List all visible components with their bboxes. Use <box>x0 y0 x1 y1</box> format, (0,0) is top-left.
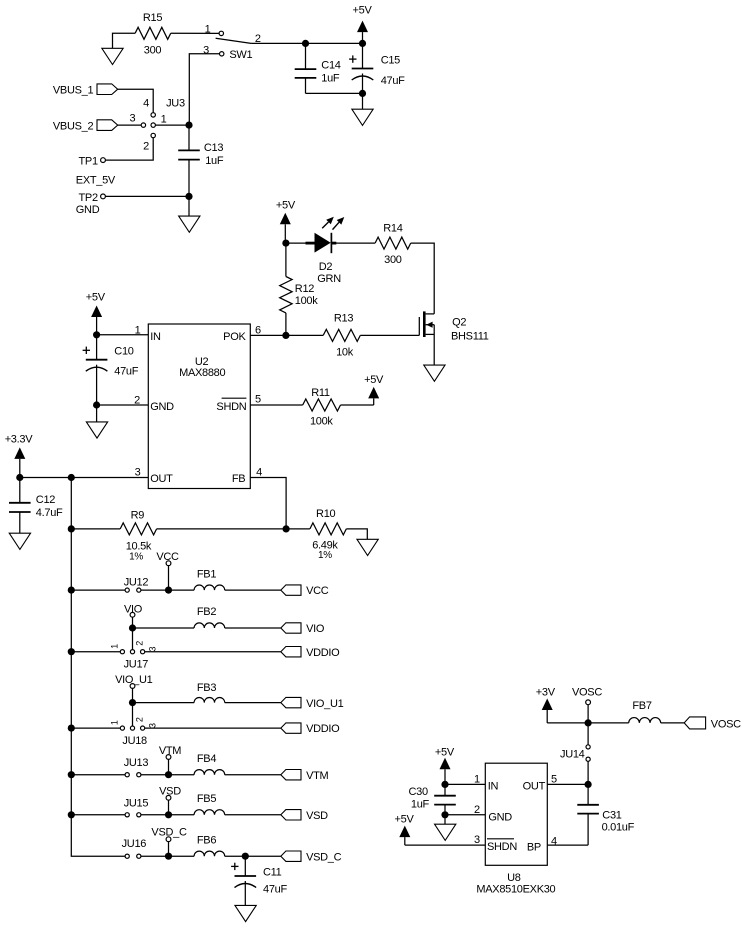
wire rail to JU17 <box>71 651 120 653</box>
svg-text:VBUS_2: VBUS_2 <box>53 121 94 133</box>
wire TP1 to JU3 pin2 <box>105 138 153 160</box>
wire rail to JU12 <box>71 589 125 591</box>
svg-text:VSD_C: VSD_C <box>306 851 342 863</box>
svg-text:0.01uF: 0.01uF <box>602 822 635 834</box>
IC U8 MAX8510EXK30 <box>485 763 547 865</box>
wire rail to JU13 <box>71 774 125 776</box>
wire R11 to +5V <box>341 404 374 406</box>
wire U2 pin2 GND <box>97 404 149 406</box>
ground (below C10) <box>96 405 98 422</box>
ferrite bead FB5 <box>194 810 225 815</box>
svg-text:FB: FB <box>232 473 245 485</box>
wire TP2 to ground node <box>105 195 189 197</box>
svg-text:1%: 1% <box>318 550 332 561</box>
IC U2 MAX8880 <box>148 324 250 489</box>
wire VOSC node to FB7 <box>588 722 629 724</box>
capacitor C15 47uF (polarized) <box>362 43 364 68</box>
wire FB1 to VCC port <box>225 589 281 591</box>
wire U2 pin4 FB <box>250 478 286 529</box>
svg-text:FB6: FB6 <box>197 834 216 846</box>
svg-text:3: 3 <box>148 647 158 652</box>
svg-text:IN: IN <box>150 331 161 343</box>
svg-text:2: 2 <box>143 141 149 153</box>
svg-text:JU12: JU12 <box>124 576 149 588</box>
wire to LED anode <box>286 242 316 244</box>
svg-text:TP2: TP2 <box>79 192 98 204</box>
junction FB node <box>283 525 290 532</box>
wire JU13 to FB4 <box>141 774 194 776</box>
capacitor C30 1uF <box>444 784 446 795</box>
svg-text:VOSC: VOSC <box>572 686 602 698</box>
svg-text:VBUS_1: VBUS_1 <box>53 85 94 97</box>
svg-text:1uF: 1uF <box>321 73 340 85</box>
svg-text:R14: R14 <box>383 223 402 235</box>
resistor R14 <box>375 237 411 249</box>
wire main rail <box>71 478 125 857</box>
junction VOSC node <box>585 719 592 726</box>
svg-text:GND: GND <box>150 401 174 413</box>
svg-text:C14: C14 <box>321 60 340 72</box>
svg-text:VDDIO: VDDIO <box>306 723 340 735</box>
svg-text:C10: C10 <box>114 346 133 358</box>
ground (below Q2) <box>424 365 445 381</box>
svg-text:C11: C11 <box>263 866 282 878</box>
ground (left of R15) <box>113 33 136 48</box>
ground (right of R10) <box>357 539 378 555</box>
svg-text:SHDN: SHDN <box>487 841 517 853</box>
junction rail top <box>68 474 75 481</box>
svg-text:2: 2 <box>135 641 145 646</box>
wire FB6 to VSD_C port <box>225 855 281 857</box>
junction rail-JU15 <box>68 811 75 818</box>
svg-text:4: 4 <box>256 466 262 478</box>
svg-text:C12: C12 <box>36 494 55 506</box>
ferrite bead FB6 <box>194 851 225 856</box>
wire R14 to Q2 drain <box>411 243 435 314</box>
svg-text:FB3: FB3 <box>197 682 216 694</box>
junction OUT node <box>585 781 592 788</box>
svg-text:R11: R11 <box>311 387 330 399</box>
jumper JU16 <box>125 854 129 858</box>
LED D2 <box>306 242 315 245</box>
wire C31 to U8 pin4 BP <box>547 844 588 846</box>
svg-text:R10: R10 <box>316 508 335 520</box>
wire U8 pin1 IN <box>445 783 485 785</box>
port VTM <box>281 770 301 780</box>
junction VCC tp <box>165 587 172 594</box>
svg-text:MAX8510EXK30: MAX8510EXK30 <box>476 884 555 896</box>
wire FB3 to VIO_U1 port <box>225 702 281 704</box>
junction rail-JU13 <box>68 771 75 778</box>
wire JU17 pin2 up to VIO node <box>132 628 134 650</box>
junction C10 top <box>93 331 100 338</box>
svg-text:1uF: 1uF <box>205 155 224 167</box>
svg-text:U8: U8 <box>507 872 521 884</box>
svg-text:GND: GND <box>488 811 512 823</box>
svg-text:3: 3 <box>203 45 209 57</box>
wire VBUS_1 to JU3 pin4 <box>118 89 154 113</box>
svg-text:D2: D2 <box>319 261 333 273</box>
wire VIO to FB2 <box>133 627 195 629</box>
svg-text:EXT_5V: EXT_5V <box>76 175 116 187</box>
transistor Q2 <box>418 317 420 335</box>
svg-text:JU18: JU18 <box>122 735 147 747</box>
svg-text:1: 1 <box>205 24 211 36</box>
svg-text:JU3: JU3 <box>166 98 185 110</box>
capacitor C14 1uF <box>305 43 307 69</box>
switch SW1 <box>219 31 223 35</box>
jumper JU3 <box>151 113 155 117</box>
svg-text:BHS111: BHS111 <box>451 331 489 343</box>
junction C11 node <box>242 853 249 860</box>
jumper JU13 <box>125 773 129 777</box>
svg-text:VDDIO: VDDIO <box>306 647 340 659</box>
ground (below C15) <box>362 93 364 109</box>
ferrite bead FB1 <box>194 585 225 590</box>
svg-text:VSD: VSD <box>306 810 328 822</box>
capacitor C11 47uF (polarized) <box>244 856 246 876</box>
capacitor C31 0.01uF <box>587 784 589 804</box>
svg-text:47uF: 47uF <box>381 75 405 87</box>
junction JU3 node <box>185 122 192 129</box>
junction C10 bottom <box>93 401 100 408</box>
wire JU16 to FB6 <box>141 855 194 857</box>
svg-text:5: 5 <box>551 773 557 785</box>
jumper JU14 <box>587 723 589 745</box>
wire R10 to ground <box>346 529 367 539</box>
svg-text:+5V: +5V <box>86 291 106 303</box>
svg-text:R15: R15 <box>143 12 162 24</box>
resistor R11 <box>303 399 341 411</box>
svg-text:JU17: JU17 <box>124 658 149 670</box>
wire rail to JU18 <box>71 727 120 729</box>
svg-text:FB2: FB2 <box>197 606 216 618</box>
port VDDIO (lower) <box>281 723 301 733</box>
svg-text:R13: R13 <box>334 313 353 325</box>
resistor R9 <box>120 523 156 535</box>
junction VTM tp <box>165 771 172 778</box>
svg-text:FB1: FB1 <box>197 568 216 580</box>
wire SW1 pin2 to +5V node <box>251 42 362 44</box>
svg-text:VCC: VCC <box>306 585 329 597</box>
svg-text:+5V: +5V <box>435 746 455 758</box>
port VIO_U1 <box>281 697 301 707</box>
svg-text:10k: 10k <box>336 347 354 359</box>
svg-text:JU16: JU16 <box>122 838 147 850</box>
ferrite bead FB7 <box>629 718 661 723</box>
junction +3.3V node <box>16 474 23 481</box>
wire SW1 pin3 down to JU3 node <box>189 54 219 123</box>
junction C30 bottom <box>441 811 448 818</box>
junction VSD_C tp <box>165 853 172 860</box>
port VSD <box>281 810 301 820</box>
svg-text:JU15: JU15 <box>124 797 149 809</box>
jumper JU12 <box>125 588 129 592</box>
wire rail to R9 <box>71 528 120 530</box>
ferrite bead FB3 <box>194 698 225 703</box>
svg-text:2: 2 <box>474 804 480 816</box>
junction at C14 top <box>302 40 309 47</box>
jumper JU15 <box>125 813 129 817</box>
wire U8 pin2 GND <box>445 814 485 816</box>
wire R15 to SW1 pin1 <box>171 32 219 34</box>
svg-text:+5V: +5V <box>395 814 415 826</box>
svg-text:3: 3 <box>129 113 135 125</box>
ground (below C30) <box>444 815 446 824</box>
svg-text:+5V: +5V <box>364 374 384 386</box>
svg-text:300: 300 <box>384 254 402 266</box>
svg-text:3: 3 <box>148 723 158 728</box>
port VDDIO (upper) <box>281 647 301 657</box>
svg-text:C31: C31 <box>602 809 621 821</box>
jumper JU17 <box>120 650 124 654</box>
junction VSD tp <box>165 811 172 818</box>
junction VIO_U1 tp <box>129 699 136 706</box>
junction C30 top <box>441 781 448 788</box>
wire JU17 to VDDIO port <box>145 651 281 653</box>
svg-text:3: 3 <box>135 466 141 478</box>
svg-text:BP: BP <box>527 842 541 854</box>
svg-text:R12: R12 <box>295 283 314 295</box>
wire FB5 to VSD port <box>225 814 281 816</box>
wire VBUS_2 to JU3 pin3 <box>118 124 142 126</box>
wire R13 to Q2 gate <box>360 334 419 336</box>
wire JU3 pin1 to node <box>155 124 189 126</box>
wire JU18 to VDDIO port <box>145 727 281 729</box>
port VSD_C <box>281 851 301 861</box>
svg-text:4: 4 <box>143 98 149 110</box>
svg-text:300: 300 <box>144 45 162 57</box>
wire R9 to FB node <box>157 528 287 530</box>
wire FB2 to VIO port <box>225 627 281 629</box>
svg-text:POK: POK <box>223 331 246 343</box>
capacitor C10 47uF (polarized) <box>96 335 98 360</box>
svg-text:47uF: 47uF <box>114 365 138 377</box>
wire U8 pin3 SHDN <box>405 844 486 846</box>
svg-text:4.7uF: 4.7uF <box>36 507 63 519</box>
svg-text:Q2: Q2 <box>452 317 466 329</box>
wire U2 pin5 SHDN to R11 <box>250 404 302 406</box>
resistor R10 <box>286 528 310 530</box>
svg-text:4: 4 <box>551 836 557 848</box>
junction VIO tp <box>129 624 136 631</box>
ferrite bead FB4 <box>194 770 225 775</box>
svg-text:IN: IN <box>488 780 499 792</box>
wire FB7 to VOSC port <box>661 722 685 724</box>
svg-text:VTM: VTM <box>306 770 328 782</box>
jumper JU18 <box>120 726 124 730</box>
wire VIO_U1 to FB3 <box>133 702 195 704</box>
wire rail to JU15 <box>71 814 125 816</box>
svg-text:6: 6 <box>255 324 261 336</box>
capacitor C13 1uF <box>188 125 190 150</box>
wire U2 pin1 IN <box>97 334 149 336</box>
wire JU18 pin2 up to VIO_U1 node <box>132 703 134 726</box>
svg-text:GRN: GRN <box>317 273 341 285</box>
svg-text:GND: GND <box>76 204 100 216</box>
junction LED node <box>282 240 289 247</box>
svg-text:+3.3V: +3.3V <box>5 434 34 446</box>
junction POK node <box>282 332 289 339</box>
junction rail-R9 <box>68 525 75 532</box>
svg-text:+5V: +5V <box>276 200 296 212</box>
ferrite bead FB2 <box>194 623 225 628</box>
wire U8 pin5 OUT <box>547 783 588 785</box>
svg-text:OUT: OUT <box>523 780 546 792</box>
svg-text:1: 1 <box>110 720 120 725</box>
svg-text:3: 3 <box>474 834 480 846</box>
svg-text:1uF: 1uF <box>411 798 430 810</box>
port VOSC <box>684 717 705 729</box>
capacitor C12 4.7uF <box>19 478 21 503</box>
svg-text:100k: 100k <box>310 415 333 427</box>
svg-text:JU13: JU13 <box>124 757 149 769</box>
junction rail-JU17 <box>68 648 75 655</box>
svg-text:C13: C13 <box>204 142 223 154</box>
svg-text:VIO: VIO <box>306 623 325 635</box>
port VIO <box>281 623 301 633</box>
svg-text:+5V: +5V <box>353 5 373 17</box>
svg-text:VOSC: VOSC <box>711 718 741 730</box>
junction at C15 top <box>359 40 366 47</box>
svg-text:C15: C15 <box>381 54 400 66</box>
svg-text:+3V: +3V <box>536 686 556 698</box>
svg-text:TP1: TP1 <box>79 156 98 168</box>
wire POK node to R13 <box>286 334 323 336</box>
svg-text:5: 5 <box>255 394 261 406</box>
svg-text:1: 1 <box>474 773 480 785</box>
junction rail-JU18 <box>68 725 75 732</box>
svg-text:2: 2 <box>135 717 145 722</box>
svg-text:SW1: SW1 <box>229 49 252 61</box>
svg-text:MAX8880: MAX8880 <box>179 367 225 379</box>
svg-text:1%: 1% <box>129 551 143 562</box>
wire U2 pin3 OUT to +3.3V <box>20 477 149 479</box>
svg-text:FB4: FB4 <box>197 753 216 765</box>
ground (below C12) <box>9 533 30 549</box>
svg-text:1: 1 <box>110 644 120 649</box>
port VCC <box>281 585 301 595</box>
wire FB4 to VTM port <box>225 774 281 776</box>
ground (below C13) <box>188 196 190 216</box>
svg-text:FB5: FB5 <box>197 793 216 805</box>
svg-text:C30: C30 <box>409 786 428 798</box>
wire LED cathode to R14 <box>332 242 376 244</box>
svg-text:FB7: FB7 <box>632 700 651 712</box>
wire U2 pin6 POK <box>250 334 286 336</box>
svg-text:VIO_U1: VIO_U1 <box>306 698 344 710</box>
junction ground node <box>185 193 192 200</box>
junction rail-JU12 <box>68 587 75 594</box>
svg-text:JU14: JU14 <box>560 749 585 761</box>
svg-text:R9: R9 <box>131 509 145 521</box>
wire JU14 to OUT node <box>587 761 589 784</box>
svg-text:OUT: OUT <box>150 473 173 485</box>
svg-text:47uF: 47uF <box>263 883 287 895</box>
svg-text:SHDN: SHDN <box>216 401 246 413</box>
ground (below C11) <box>235 905 256 921</box>
resistor R15 <box>135 27 171 39</box>
resistor R12 <box>285 243 287 276</box>
svg-text:1: 1 <box>161 114 167 126</box>
resistor R13 <box>323 329 360 341</box>
junction at C15 bottom <box>359 90 366 97</box>
wire JU12 to FB1 <box>141 589 194 591</box>
wire +3V to VOSC node <box>547 722 588 724</box>
svg-text:100k: 100k <box>295 295 318 307</box>
wire JU15 to FB5 <box>141 814 194 816</box>
